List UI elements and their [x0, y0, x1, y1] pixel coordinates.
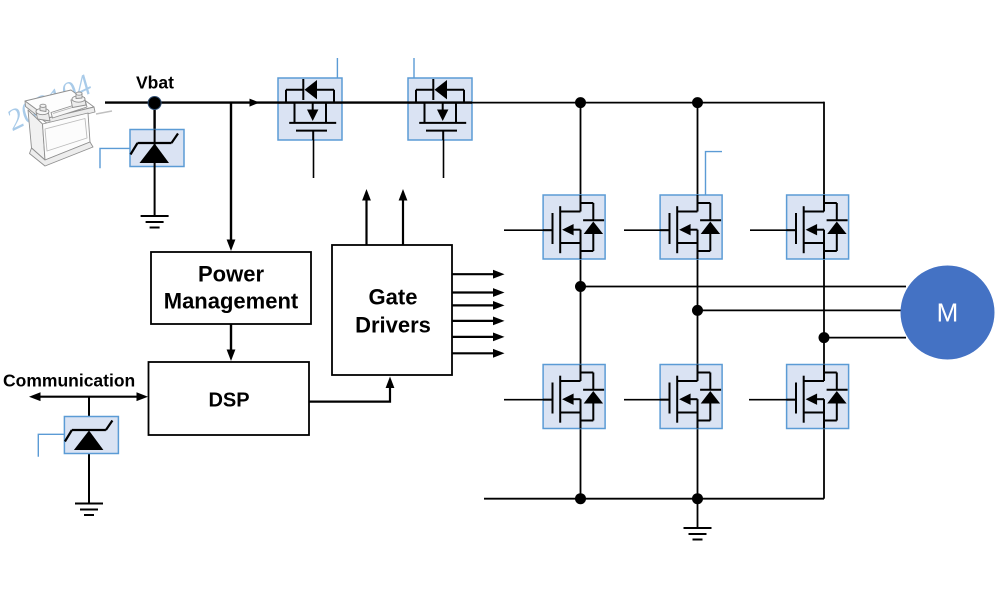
svg-text:Drivers: Drivers [355, 313, 431, 338]
svg-text:Management: Management [164, 289, 299, 314]
svg-text:DSP: DSP [208, 390, 249, 412]
svg-text:Vbat: Vbat [136, 73, 174, 93]
svg-text:Gate: Gate [369, 285, 418, 310]
svg-text:Communication: Communication [3, 371, 135, 391]
svg-text:M: M [937, 298, 959, 328]
svg-text:Power: Power [198, 262, 264, 287]
